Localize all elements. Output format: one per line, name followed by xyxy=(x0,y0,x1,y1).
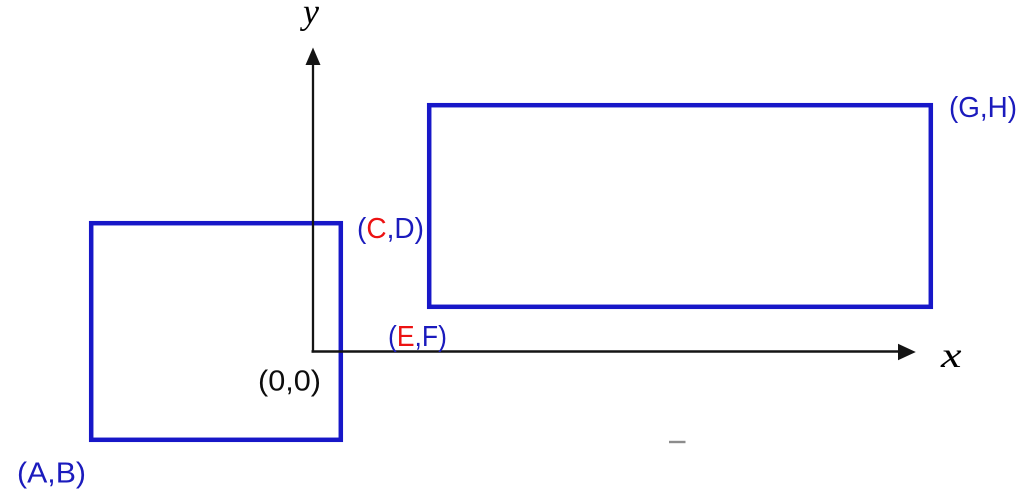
svg-text:(A,B): (A,B) xyxy=(17,458,86,490)
svg-text:(G,H): (G,H) xyxy=(949,92,1017,124)
svg-text:x: x xyxy=(940,335,962,375)
svg-text:(0,0): (0,0) xyxy=(258,366,321,398)
svg-text:(E,F): (E,F) xyxy=(388,321,447,353)
svg-text:y: y xyxy=(300,0,319,32)
svg-text:(C,D): (C,D) xyxy=(357,213,424,245)
